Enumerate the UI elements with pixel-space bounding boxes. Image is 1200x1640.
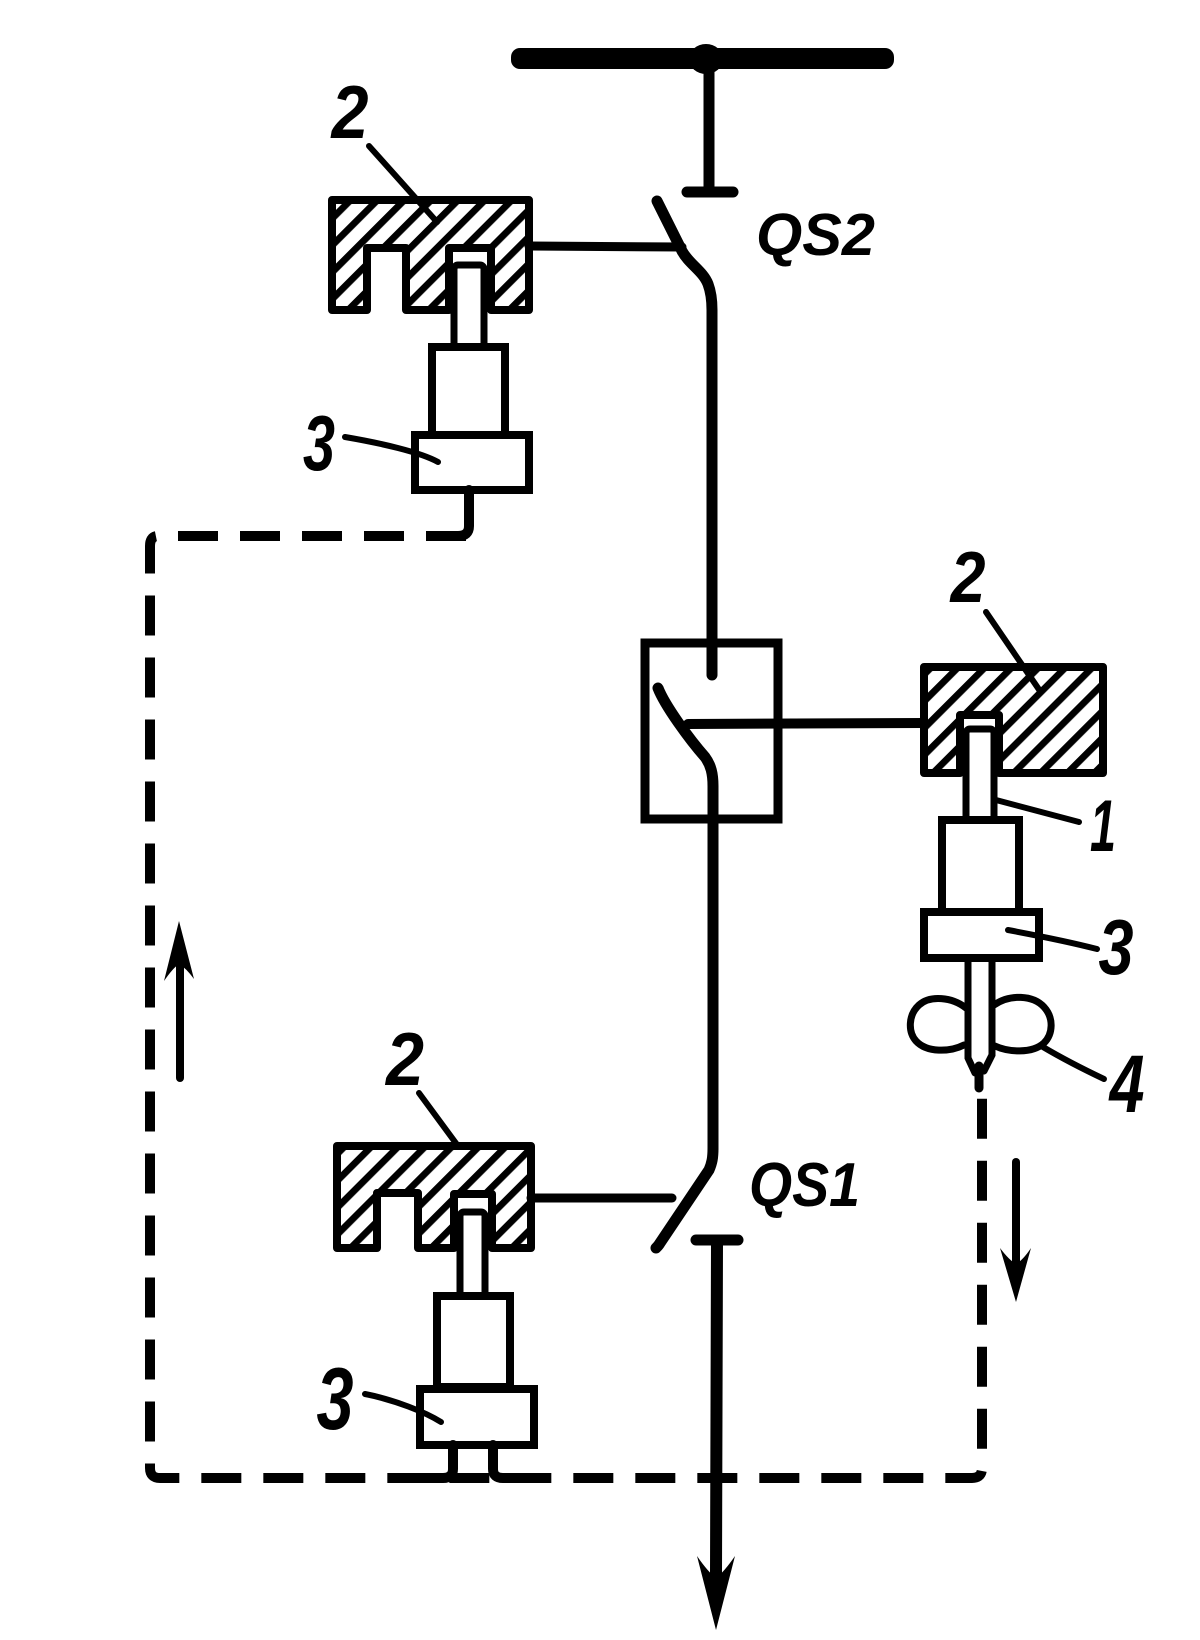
svg-text:QS1: QS1 (749, 1151, 860, 1220)
svg-text:2: 2 (384, 1017, 424, 1101)
svg-text:3: 3 (317, 1349, 354, 1448)
svg-text:1: 1 (1090, 786, 1116, 867)
svg-text:QS2: QS2 (756, 202, 875, 268)
svg-text:2: 2 (330, 70, 369, 154)
svg-text:3: 3 (303, 399, 335, 487)
svg-text:3: 3 (1099, 903, 1134, 991)
svg-text:2: 2 (949, 538, 986, 618)
svg-text:4: 4 (1108, 1039, 1145, 1130)
